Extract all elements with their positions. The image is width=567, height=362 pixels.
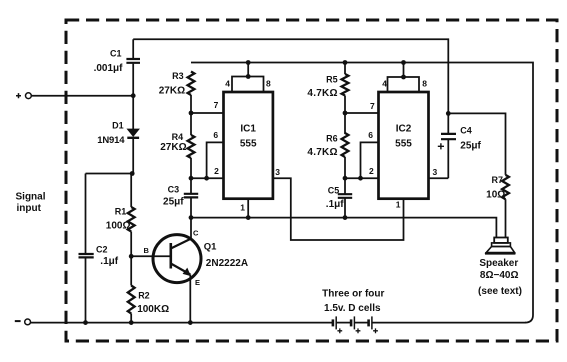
svg-text:2N2222A: 2N2222A [206, 258, 248, 269]
svg-text:(see text): (see text) [478, 286, 522, 297]
svg-text:1: 1 [396, 200, 401, 210]
svg-text:input: input [17, 203, 42, 214]
svg-text:555: 555 [240, 139, 257, 150]
svg-text:1.5v. D cells: 1.5v. D cells [324, 303, 381, 314]
svg-text:Three or four: Three or four [322, 289, 384, 300]
svg-text:8: 8 [422, 78, 427, 88]
svg-text:4.7KΩ: 4.7KΩ [307, 88, 337, 99]
svg-text:C1: C1 [110, 49, 122, 59]
svg-text:8: 8 [266, 78, 271, 88]
svg-text:.1μf: .1μf [100, 256, 118, 267]
svg-text:7: 7 [214, 100, 219, 110]
svg-text:R4: R4 [172, 132, 184, 142]
svg-text:Signal: Signal [16, 191, 46, 202]
svg-text:R2: R2 [138, 290, 150, 300]
svg-text:555: 555 [395, 139, 412, 150]
svg-text:4: 4 [382, 78, 387, 88]
svg-text:6: 6 [213, 130, 218, 140]
svg-text:6: 6 [368, 130, 373, 140]
svg-text:27KΩ: 27KΩ [159, 86, 185, 97]
svg-text:Speaker: Speaker [479, 258, 518, 269]
svg-text:IC1: IC1 [240, 124, 256, 135]
svg-text:Q1: Q1 [204, 241, 217, 252]
svg-text:B: B [144, 246, 150, 255]
svg-text:2: 2 [369, 166, 374, 176]
svg-text:C: C [193, 228, 199, 237]
svg-text:7: 7 [370, 101, 375, 111]
svg-text:10Ω: 10Ω [486, 189, 505, 200]
svg-text:3: 3 [275, 167, 280, 177]
svg-text:100KΩ: 100KΩ [137, 304, 169, 315]
svg-text:C3: C3 [168, 185, 180, 195]
svg-text:R5: R5 [326, 74, 338, 84]
svg-text:25μf: 25μf [460, 140, 481, 151]
svg-text:8Ω−40Ω: 8Ω−40Ω [480, 270, 519, 281]
svg-text:R6: R6 [326, 133, 338, 143]
svg-text:2: 2 [214, 166, 219, 176]
svg-text:.1μf: .1μf [326, 199, 344, 210]
svg-text:3: 3 [433, 167, 438, 177]
svg-text:4.7KΩ: 4.7KΩ [307, 147, 337, 158]
svg-text:R1: R1 [115, 207, 127, 217]
svg-text:1: 1 [240, 203, 245, 213]
svg-text:27KΩ: 27KΩ [160, 142, 186, 153]
svg-text:C2: C2 [96, 245, 108, 255]
svg-text:4: 4 [225, 78, 230, 88]
svg-text:25μf: 25μf [163, 196, 184, 207]
svg-text:C4: C4 [460, 125, 472, 135]
svg-text:C5: C5 [328, 186, 340, 196]
svg-text:1N914: 1N914 [97, 135, 125, 146]
svg-text:R3: R3 [172, 71, 184, 81]
svg-text:E: E [195, 278, 200, 287]
svg-text:R7: R7 [491, 175, 503, 185]
svg-text:100Ω: 100Ω [106, 221, 131, 232]
svg-text:D1: D1 [112, 120, 124, 130]
svg-text:IC2: IC2 [396, 124, 412, 135]
svg-text:.001μf: .001μf [94, 63, 124, 74]
